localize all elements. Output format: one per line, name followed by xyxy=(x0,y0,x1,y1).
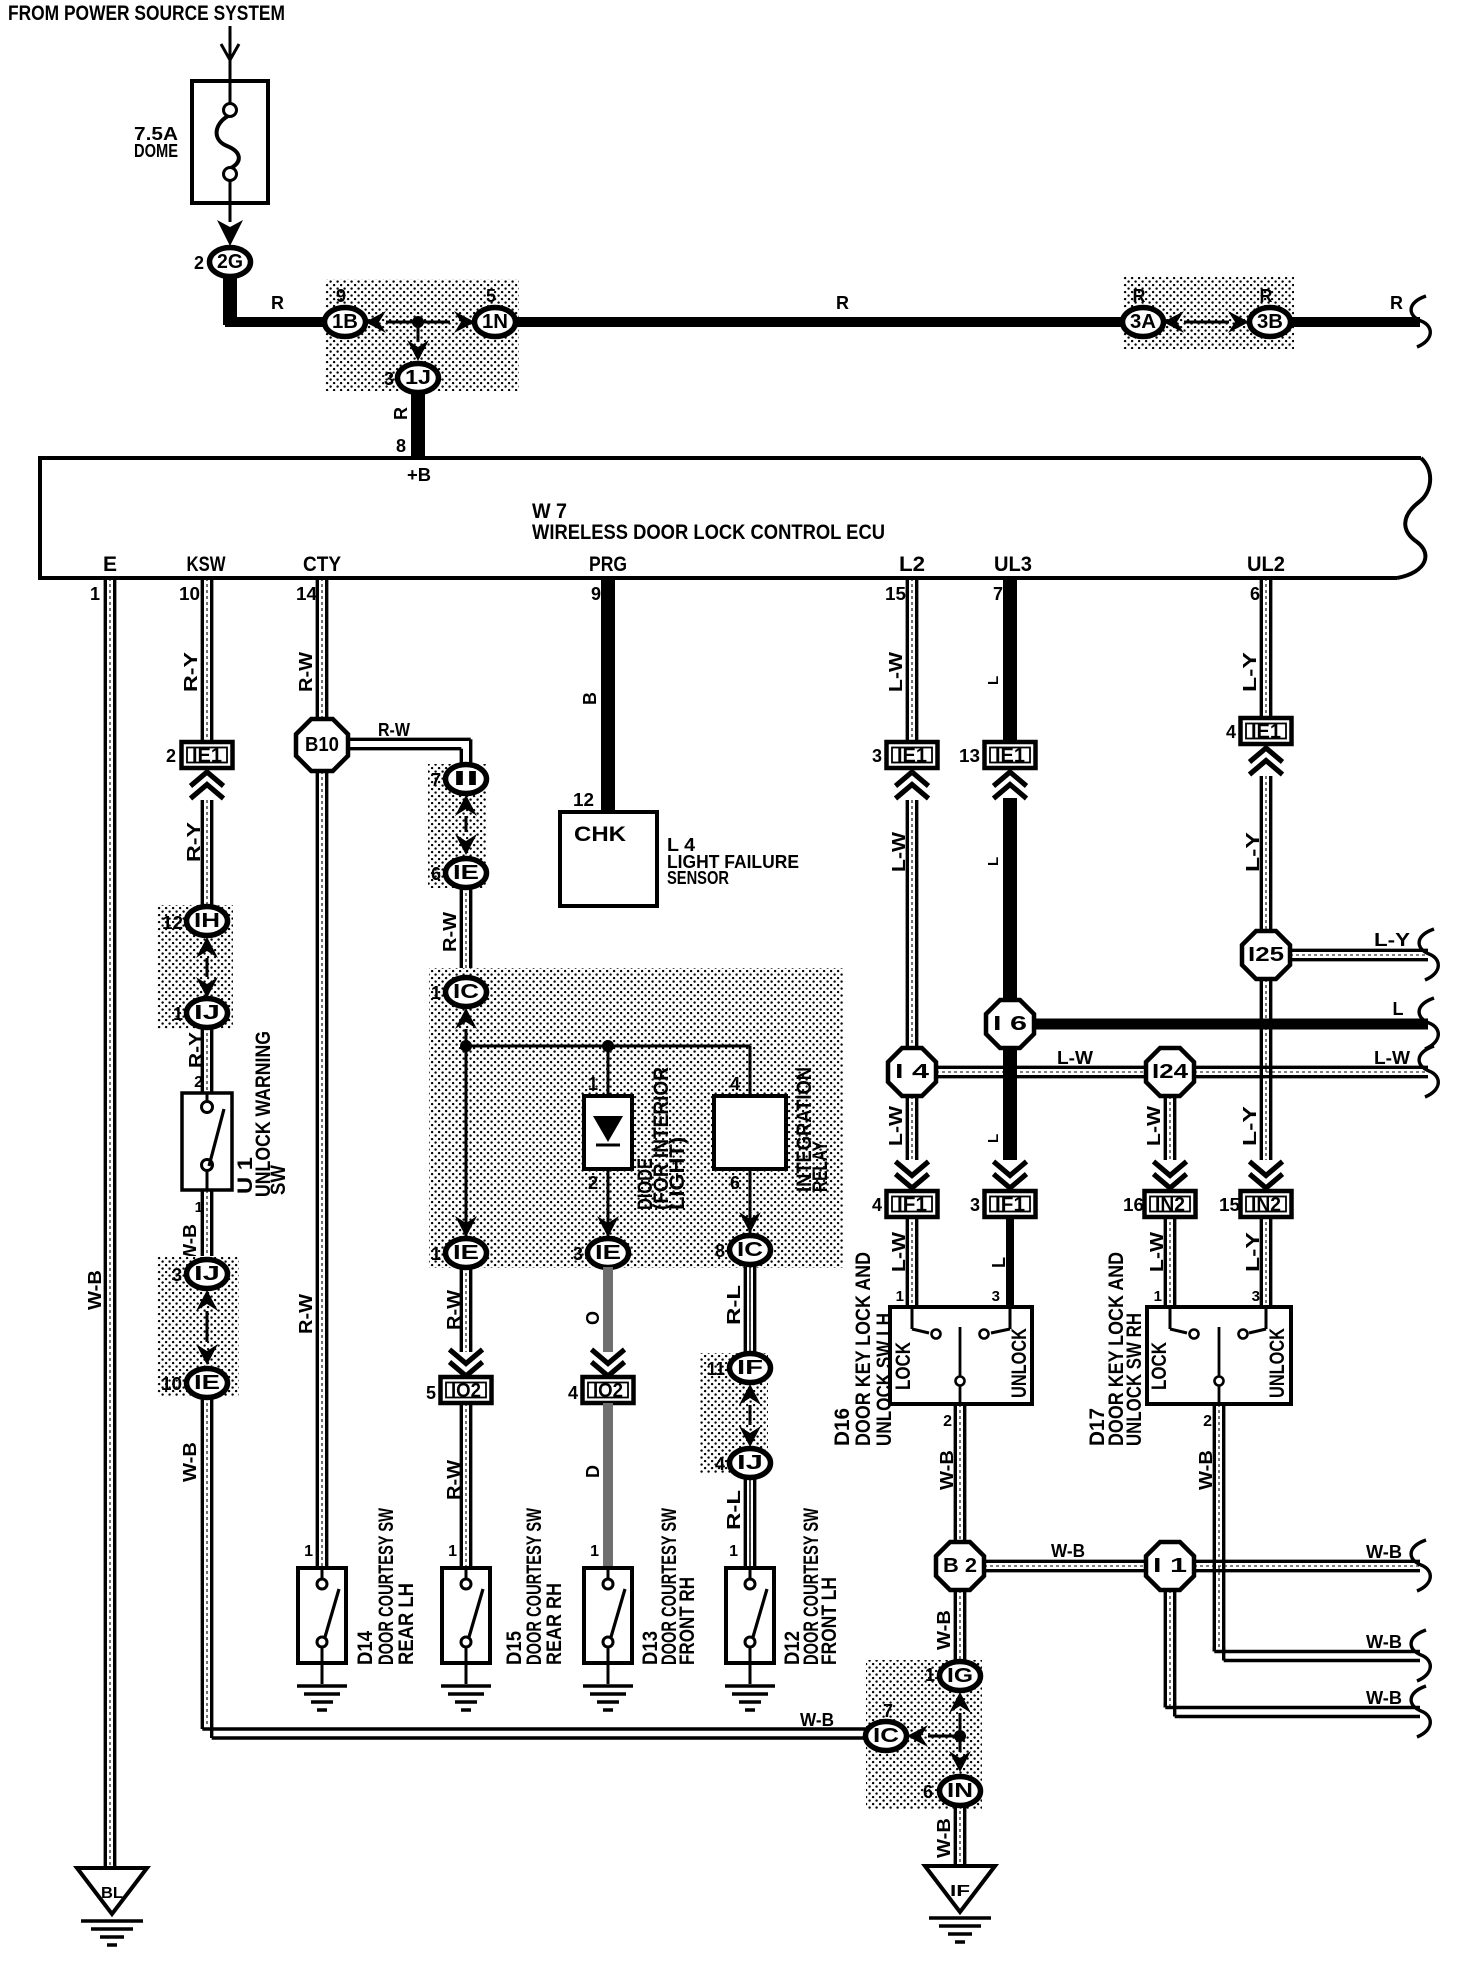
svg-text:I 1: I 1 xyxy=(1153,1555,1187,1577)
wire W-B from I1 down to right edge xyxy=(1165,1590,1430,1737)
wire L from I6 down to connector 3 IF1 xyxy=(985,1048,1010,1160)
wire L-W from IN2 to D17 pin 1 xyxy=(1147,1216,1175,1307)
svg-text:I24: I24 xyxy=(1152,1061,1189,1083)
connector 13 IE1 xyxy=(959,742,1036,768)
wire L from I6 to right edge xyxy=(1034,998,1438,1049)
svg-text:1: 1 xyxy=(588,1074,598,1094)
svg-text:IE1: IE1 xyxy=(1251,721,1281,743)
pin 9 of terminal PRG xyxy=(591,584,601,604)
svg-text:IC: IC xyxy=(737,1239,763,1261)
wire L-W from IF1 to D16 pin 1 xyxy=(889,1216,917,1307)
label D15 DOOR COURTESY SW REAR RH xyxy=(503,1508,566,1665)
svg-text:W-B: W-B xyxy=(1051,1541,1085,1561)
svg-text:I 4: I 4 xyxy=(895,1061,930,1083)
arrow into 8 IC xyxy=(739,1212,761,1233)
pin 15 of terminal L2 xyxy=(885,584,906,604)
svg-text:W-B: W-B xyxy=(800,1710,834,1730)
svg-text:IO2: IO2 xyxy=(593,1380,623,1402)
svg-text:10: 10 xyxy=(161,1374,182,1394)
svg-text:6: 6 xyxy=(1250,584,1260,604)
shaded splice region 3IJ 10IE xyxy=(157,1256,239,1397)
svg-text:IH: IH xyxy=(194,910,220,932)
wire R-W from 1 IE to connector 5 IO2 xyxy=(444,1267,471,1352)
svg-text:B10: B10 xyxy=(305,734,339,756)
arrow up into IG xyxy=(949,1692,971,1713)
svg-text:3: 3 xyxy=(172,1265,182,1285)
svg-text:W-B: W-B xyxy=(937,1450,957,1490)
svg-text:L: L xyxy=(989,1257,1009,1268)
svg-text:W-B: W-B xyxy=(1196,1450,1216,1490)
svg-text:R: R xyxy=(271,293,284,313)
pin 6 of terminal UL2 xyxy=(1250,584,1260,604)
connector 4 IO2 xyxy=(568,1377,634,1403)
svg-text:W-B: W-B xyxy=(1366,1542,1402,1562)
svg-text:2: 2 xyxy=(943,1413,952,1430)
svg-text:IJ: IJ xyxy=(194,1002,220,1024)
svg-text:UL3: UL3 xyxy=(994,553,1032,576)
label D17 DOOR KEY LOCK AND UNLOCK SW RH xyxy=(1086,1252,1146,1446)
wire to diode pin 1 xyxy=(588,1046,608,1096)
svg-text:3: 3 xyxy=(992,1288,1000,1305)
svg-text:R: R xyxy=(1133,286,1146,306)
connector 2G xyxy=(194,248,251,277)
svg-text:R-W: R-W xyxy=(378,720,410,740)
svg-text:1: 1 xyxy=(195,1199,203,1216)
svg-text:IN: IN xyxy=(947,1780,973,1802)
connector 1J xyxy=(384,364,439,393)
svg-text:1N: 1N xyxy=(482,311,508,333)
label L4 LIGHT FAILURE SENSOR xyxy=(667,835,799,888)
label D13 DOOR COURTESY SW FRONT RH xyxy=(639,1508,699,1665)
svg-text:3: 3 xyxy=(970,1195,980,1215)
fuse 7.5A DOME xyxy=(192,81,268,222)
ECU terminal E xyxy=(103,553,117,576)
wire R-L from 4 IJ to D12 xyxy=(724,1477,755,1568)
svg-text:5: 5 xyxy=(486,286,496,306)
svg-text:IJ: IJ xyxy=(194,1263,220,1285)
connector 3 IJ xyxy=(172,1260,228,1289)
connector 15 IN2 xyxy=(1219,1191,1292,1217)
shaded splice region IC IG IN xyxy=(866,1660,982,1809)
connector 1 IG xyxy=(925,1662,981,1691)
label D12 DOOR COURTESY SW FRONT LH xyxy=(781,1508,841,1665)
wire R-L from 8 IC to connector 11 IF xyxy=(724,1264,755,1354)
svg-text:B 2: B 2 xyxy=(943,1555,977,1577)
svg-text:D14: D14 xyxy=(354,1631,377,1665)
connector 6 IE xyxy=(431,859,487,888)
svg-text:W-B: W-B xyxy=(180,1442,200,1482)
svg-text:REAR LH: REAR LH xyxy=(395,1583,418,1665)
wire L-W from ECU pin L2 to connector 3 IE1 xyxy=(886,578,917,743)
wire R-W branch from B10 to connector II xyxy=(348,720,471,765)
arrow up into IC xyxy=(455,1008,477,1029)
wire B from ECU pin PRG to light failure sensor xyxy=(573,578,608,812)
svg-text:15: 15 xyxy=(1219,1195,1240,1215)
wire L-W from I24 down to connector 16 IN2 xyxy=(1144,1096,1175,1160)
svg-text:R-Y: R-Y xyxy=(184,822,204,862)
svg-text:3: 3 xyxy=(872,746,882,766)
big shaded region diode and integration relay xyxy=(429,968,843,1268)
svg-text:IE1: IE1 xyxy=(192,745,222,767)
svg-text:1: 1 xyxy=(896,1288,904,1305)
svg-text:1: 1 xyxy=(304,1543,313,1560)
svg-text:SW: SW xyxy=(267,1165,290,1195)
svg-text:14: 14 xyxy=(296,584,317,604)
switch D14 DOOR COURTESY SW REAR LH xyxy=(297,1568,347,1710)
wire L-W from I4 to right edge xyxy=(936,1046,1438,1097)
svg-text:IE: IE xyxy=(453,1242,479,1264)
svg-text:9: 9 xyxy=(591,584,601,604)
connector 1 IE xyxy=(431,1239,487,1268)
svg-text:1: 1 xyxy=(729,1543,738,1560)
connector 3 IF1 xyxy=(970,1191,1036,1217)
svg-text:6: 6 xyxy=(923,1782,933,1802)
svg-text:8: 8 xyxy=(396,436,406,456)
svg-text:5: 5 xyxy=(426,1383,436,1403)
svg-text:7: 7 xyxy=(883,1701,893,1721)
svg-text:1: 1 xyxy=(431,1244,441,1264)
ECU W7 WIRELESS DOOR LOCK CONTROL ECU box xyxy=(40,458,1430,578)
wire W-B from U1 pin 1 to IJ xyxy=(180,1190,212,1262)
pin 14 of terminal CTY xyxy=(296,584,317,604)
wire L-Y from I25 down to connector 15 IN2 xyxy=(1240,979,1271,1160)
wire junction below IC to diode and relay xyxy=(460,1029,750,1237)
svg-text:R: R xyxy=(391,407,411,420)
arrows between II and IE xyxy=(455,795,477,855)
svg-text:R-L: R-L xyxy=(724,1490,744,1530)
svg-text:IF: IF xyxy=(737,1357,763,1379)
svg-text:L-W: L-W xyxy=(1147,1232,1167,1272)
svg-text:15: 15 xyxy=(885,584,906,604)
connector 2 IE1 xyxy=(166,742,233,768)
wire R from 1J to ECU pin 8 xyxy=(391,390,418,458)
svg-text:IF1: IF1 xyxy=(897,1194,927,1216)
svg-text:KSW: KSW xyxy=(187,553,226,576)
svg-text:LIGHT): LIGHT) xyxy=(666,1137,689,1210)
connector 3B xyxy=(1250,286,1291,337)
svg-text:4: 4 xyxy=(715,1454,725,1474)
svg-text:SENSOR: SENSOR xyxy=(667,868,729,888)
wire W-B from ECU pin E to ground BL xyxy=(85,578,115,1868)
light failure sensor L4 CHK box xyxy=(560,812,657,906)
svg-text:UNLOCK SW LH: UNLOCK SW LH xyxy=(873,1313,896,1446)
svg-text:DOOR KEY LOCK AND: DOOR KEY LOCK AND xyxy=(852,1252,875,1446)
svg-text:WIRELESS DOOR LOCK CONTROL ECU: WIRELESS DOOR LOCK CONTROL ECU xyxy=(532,521,885,544)
svg-text:16: 16 xyxy=(1123,1195,1144,1215)
svg-text:IN2: IN2 xyxy=(1251,1194,1281,1216)
svg-text:4: 4 xyxy=(1226,722,1236,742)
wire from diode pin 2 xyxy=(588,1169,608,1237)
svg-text:L: L xyxy=(1393,999,1404,1019)
double arrow between 3A and 3B xyxy=(1163,311,1249,333)
svg-text:R: R xyxy=(1390,293,1403,313)
svg-text:CTY: CTY xyxy=(303,553,341,576)
wire L from I6 to IE1 xyxy=(985,798,1010,1000)
svg-text:4: 4 xyxy=(872,1195,882,1215)
arrow into 1B xyxy=(365,311,386,333)
svg-text:1: 1 xyxy=(925,1665,935,1685)
splice I6 xyxy=(986,1000,1034,1048)
arrow into 1J xyxy=(407,327,429,361)
svg-text:IE: IE xyxy=(194,1372,220,1394)
fuse value label 7.5A DOME xyxy=(134,124,178,161)
svg-text:L-Y: L-Y xyxy=(1240,652,1260,692)
splice I1 xyxy=(1146,1542,1194,1590)
svg-text:1: 1 xyxy=(1154,1288,1162,1305)
connector 7 IC xyxy=(866,1701,907,1751)
svg-text:R-W: R-W xyxy=(296,1294,316,1334)
wire R-W from IE to IC xyxy=(440,887,471,978)
svg-text:2: 2 xyxy=(194,1074,203,1091)
svg-text:1B: 1B xyxy=(332,311,358,333)
connector IH xyxy=(162,907,228,936)
svg-text:3: 3 xyxy=(384,369,394,389)
svg-text:R-W: R-W xyxy=(444,1460,464,1500)
wire from power source into fuse xyxy=(221,26,239,81)
shaded splice region IF IJ xyxy=(700,1353,768,1474)
svg-text:R: R xyxy=(836,293,849,313)
svg-text:FRONT RH: FRONT RH xyxy=(676,1577,699,1665)
svg-text:L: L xyxy=(985,676,1002,685)
svg-text:10: 10 xyxy=(179,584,200,604)
ECU terminal PRG xyxy=(589,553,627,576)
wire R-W from B10 down to door courtesy switch D14 xyxy=(296,771,327,1568)
svg-text:UNLOCK: UNLOCK xyxy=(1266,1328,1289,1398)
svg-text:L-Y: L-Y xyxy=(1243,1232,1263,1272)
svg-text:12: 12 xyxy=(573,790,594,810)
wire L-Y from I25 to IE1 xyxy=(1243,776,1271,931)
connector 11 IF xyxy=(707,1354,771,1383)
svg-text:3: 3 xyxy=(1252,1288,1260,1305)
chevron arrow up into IE1 xyxy=(191,772,224,799)
svg-text:UL2: UL2 xyxy=(1247,553,1285,576)
wire O from 3 IE to connector 4 IO2 xyxy=(583,1267,608,1352)
arrow into connector 2G xyxy=(217,220,243,246)
svg-text:FRONT LH: FRONT LH xyxy=(818,1577,841,1665)
svg-text:IE1: IE1 xyxy=(897,745,927,767)
svg-text:W-B: W-B xyxy=(1366,1632,1402,1652)
svg-text:1: 1 xyxy=(590,1543,599,1560)
arrows between IH and IJ xyxy=(196,937,218,998)
chevron arrow down into 4 IO2 xyxy=(592,1350,625,1377)
svg-text:1J: 1J xyxy=(405,367,431,389)
switch U1 UNLOCK WARNING SW xyxy=(182,1093,232,1190)
splice B2 xyxy=(936,1542,984,1590)
ground IF xyxy=(925,1866,995,1942)
svg-text:IE: IE xyxy=(595,1242,621,1264)
switch D16 DOOR KEY LOCK AND UNLOCK SW LH xyxy=(890,1307,1032,1404)
svg-text:UNLOCK: UNLOCK xyxy=(1008,1328,1031,1398)
svg-text:REAR RH: REAR RH xyxy=(543,1583,566,1665)
connector 16 IN2 xyxy=(1123,1191,1196,1217)
wire R-Y from ECU pin KSW to connector IE1 xyxy=(181,578,212,743)
wire R-W from IO2 to D15 xyxy=(444,1403,471,1568)
connector 1B xyxy=(325,286,366,337)
svg-text:IE: IE xyxy=(453,862,479,884)
chevron arrow down into 4 IF1 xyxy=(896,1162,929,1189)
svg-text:IG: IG xyxy=(947,1665,973,1687)
shaded splice region II IE xyxy=(428,764,487,888)
svg-text:L-Y: L-Y xyxy=(1240,1106,1260,1146)
wire W-B from 10 IE to connector 7 IC xyxy=(180,1397,866,1738)
wire W-B from I1 to right edge xyxy=(1194,1540,1430,1591)
wire W-B from B2 to splice I1 xyxy=(984,1541,1146,1571)
wire W-B from IN to ground IF xyxy=(934,1805,965,1866)
svg-text:9: 9 xyxy=(336,286,346,306)
splice B10 xyxy=(296,719,348,771)
ECU terminal KSW xyxy=(187,553,226,576)
svg-text:L2: L2 xyxy=(899,553,925,576)
connector 3A xyxy=(1123,286,1164,337)
svg-text:II: II xyxy=(453,768,479,790)
svg-text:1: 1 xyxy=(173,1004,183,1024)
svg-text:FROM POWER SOURCE SYSTEM: FROM POWER SOURCE SYSTEM xyxy=(8,2,285,25)
connector 3 IE xyxy=(573,1239,629,1268)
label U1 UNLOCK WARNING SW xyxy=(234,1031,290,1197)
svg-text:+B: +B xyxy=(407,465,431,485)
wire L-Y from ECU pin UL2 to connector 4 IE1 xyxy=(1240,578,1271,719)
svg-text:W-B: W-B xyxy=(1366,1688,1402,1708)
svg-text:D16: D16 xyxy=(831,1408,854,1446)
svg-text:I 6: I 6 xyxy=(993,1013,1027,1035)
svg-text:12: 12 xyxy=(162,913,183,933)
connector 4 IJ xyxy=(715,1449,771,1478)
svg-text:7: 7 xyxy=(431,770,441,790)
ECU terminal CTY xyxy=(303,553,341,576)
label DIODE FOR INTERIOR LIGHT xyxy=(634,1067,689,1210)
label D14 DOOR COURTESY SW REAR LH xyxy=(354,1508,418,1665)
wire L-W from I4 down to connector 4 IF1 xyxy=(886,1096,917,1160)
svg-text:DOME: DOME xyxy=(134,141,178,161)
svg-text:IJ: IJ xyxy=(737,1452,763,1474)
chevron arrow up into 13 IE1 xyxy=(994,772,1027,799)
ECU terminal UL2 xyxy=(1247,553,1285,576)
svg-text:IO2: IO2 xyxy=(451,1380,481,1402)
svg-text:L-W: L-W xyxy=(886,1106,906,1146)
svg-text:L-Y: L-Y xyxy=(1243,832,1263,872)
ECU terminal UL3 xyxy=(994,553,1032,576)
svg-text:R-W: R-W xyxy=(444,1290,464,1330)
label FROM POWER SOURCE SYSTEM xyxy=(8,2,285,25)
svg-text:D: D xyxy=(583,1465,603,1478)
svg-text:W-B: W-B xyxy=(934,1818,954,1858)
svg-text:3A: 3A xyxy=(1130,311,1156,333)
svg-text:L-W: L-W xyxy=(1057,1048,1093,1068)
switch D13 DOOR COURTESY SW FRONT RH xyxy=(583,1568,633,1710)
chevron arrow down into 5 IO2 xyxy=(450,1350,483,1377)
svg-text:IE1: IE1 xyxy=(995,745,1025,767)
connector 1 IC xyxy=(431,978,487,1007)
svg-text:R: R xyxy=(1260,286,1273,306)
splice I25 xyxy=(1242,931,1290,979)
connector 5 IO2 xyxy=(426,1377,492,1403)
connector 8 IC xyxy=(715,1236,771,1265)
connector 3 IE1 xyxy=(872,742,938,768)
arrow left into 7 IC xyxy=(907,1725,928,1747)
arrows between IF and IJ xyxy=(739,1384,761,1447)
svg-text:R-W: R-W xyxy=(440,912,460,952)
svg-text:2: 2 xyxy=(1203,1413,1212,1430)
wire R from 2G to 1B xyxy=(225,274,327,325)
svg-text:PRG: PRG xyxy=(589,553,627,576)
svg-text:IF: IF xyxy=(950,1883,970,1900)
wire to integration relay pin 4 xyxy=(730,1046,750,1096)
svg-text:LOCK: LOCK xyxy=(1148,1342,1171,1390)
svg-text:7: 7 xyxy=(993,584,1003,604)
pin 10 of terminal KSW xyxy=(179,584,200,604)
connector 4 IE1 xyxy=(1226,718,1292,744)
svg-text:6: 6 xyxy=(431,864,441,884)
ground BL xyxy=(77,1868,147,1945)
wire junction below IG xyxy=(928,1713,966,1752)
svg-text:R-Y: R-Y xyxy=(181,652,201,692)
svg-text:L-W: L-W xyxy=(1374,1048,1410,1068)
chevron arrow up into 3 IE1 xyxy=(896,772,929,799)
svg-text:4: 4 xyxy=(568,1383,578,1403)
shaded splice region 3A 3B xyxy=(1123,276,1294,349)
svg-text:2: 2 xyxy=(588,1173,598,1193)
svg-text:13: 13 xyxy=(959,746,980,766)
svg-text:W 7: W 7 xyxy=(532,500,567,523)
connector 1N xyxy=(475,286,516,337)
splice I24 xyxy=(1146,1048,1194,1096)
pin 1 of terminal E xyxy=(90,584,100,604)
connector 7 II xyxy=(431,765,487,794)
wire L from IF1 to D16 pin 3 xyxy=(989,1216,1010,1307)
svg-text:8: 8 xyxy=(715,1241,725,1261)
wire L-Y from IN2 to D17 pin 3 xyxy=(1243,1216,1271,1307)
svg-text:1: 1 xyxy=(431,983,441,1003)
pin 7 of terminal UL3 xyxy=(993,584,1003,604)
arrows between IJ and IE xyxy=(196,1290,218,1365)
wire L-Y from I25 to right edge xyxy=(1290,929,1438,980)
ECU terminal L2 xyxy=(899,553,925,576)
chevron arrow up into 4 IE1 xyxy=(1250,748,1283,775)
svg-text:E: E xyxy=(103,553,117,576)
svg-text:2G: 2G xyxy=(217,251,243,273)
svg-text:IC: IC xyxy=(873,1725,899,1747)
connector 6 IN xyxy=(923,1777,981,1806)
svg-text:L-W: L-W xyxy=(1144,1106,1164,1146)
wire junction between 1B and 1N xyxy=(386,316,450,328)
diode for interior light xyxy=(584,1096,632,1169)
svg-text:W-B: W-B xyxy=(934,1610,954,1650)
svg-text:2: 2 xyxy=(194,253,204,273)
switch D12 DOOR COURTESY SW FRONT LH xyxy=(725,1568,775,1710)
shaded splice region 1B 1N 1J xyxy=(325,279,519,391)
svg-text:IC: IC xyxy=(453,981,479,1003)
arrow into 1 IE xyxy=(455,1216,477,1237)
svg-text:B: B xyxy=(580,692,600,705)
wire R continuation right of 3B xyxy=(1288,293,1430,347)
label D16 DOOR KEY LOCK AND UNLOCK SW LH xyxy=(831,1252,896,1446)
svg-text:I25: I25 xyxy=(1248,944,1284,966)
svg-text:2: 2 xyxy=(166,746,176,766)
wire W-B from D17 pin 2 to right edge xyxy=(1196,1404,1430,1681)
wire D from IO2 to D13 xyxy=(583,1403,608,1568)
svg-text:L-Y: L-Y xyxy=(1374,930,1410,950)
svg-text:3B: 3B xyxy=(1257,311,1283,333)
wire R-W from ECU pin CTY to splice B10 xyxy=(296,578,327,719)
svg-text:RELAY: RELAY xyxy=(809,1141,832,1192)
chevron arrow down into 3 IF1 xyxy=(994,1162,1027,1189)
splice I4 xyxy=(888,1048,936,1096)
shaded splice region IH IJ xyxy=(157,905,233,1029)
switch D15 DOOR COURTESY SW REAR RH xyxy=(441,1568,491,1710)
svg-text:R-L: R-L xyxy=(724,1285,744,1325)
svg-text:W-B: W-B xyxy=(85,1270,105,1310)
label INTEGRATION RELAY xyxy=(793,1067,832,1192)
